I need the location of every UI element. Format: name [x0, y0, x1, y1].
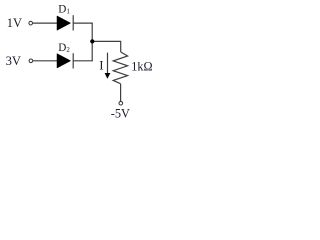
junction dot node A	[90, 39, 94, 43]
wire 3V terminal to D2 anode	[33, 60, 57, 62]
current arrow I shaft	[107, 53, 109, 74]
svg-text:I: I	[99, 57, 103, 72]
diode D1 cathode bar	[72, 15, 74, 30]
svg-text:-5V: -5V	[111, 106, 130, 120]
wire vertical bus joining D1 and D2 cathodes	[91, 23, 93, 61]
terminal circle -5V supply	[119, 101, 123, 105]
current arrow I head	[105, 73, 111, 79]
svg-text:1V: 1V	[7, 16, 22, 30]
wire D1 cathode to vertical bus	[73, 22, 93, 24]
wire resistor bottom to -5V terminal	[120, 84, 122, 102]
diode D1 triangle	[57, 16, 71, 30]
svg-text:1kΩ: 1kΩ	[131, 59, 152, 73]
wire node A to resistor top	[92, 41, 121, 52]
diode D2 cathode bar	[72, 53, 74, 68]
resistor R1 zigzag body 1kOhm	[113, 52, 127, 84]
terminal circle 3V input	[29, 59, 33, 63]
terminal circle 1V input	[29, 21, 33, 25]
svg-text:3V: 3V	[6, 54, 21, 68]
wire D2 cathode to vertical bus	[73, 60, 93, 62]
wire 1V terminal to D1 anode	[33, 22, 58, 24]
diode D2 triangle	[57, 54, 71, 68]
